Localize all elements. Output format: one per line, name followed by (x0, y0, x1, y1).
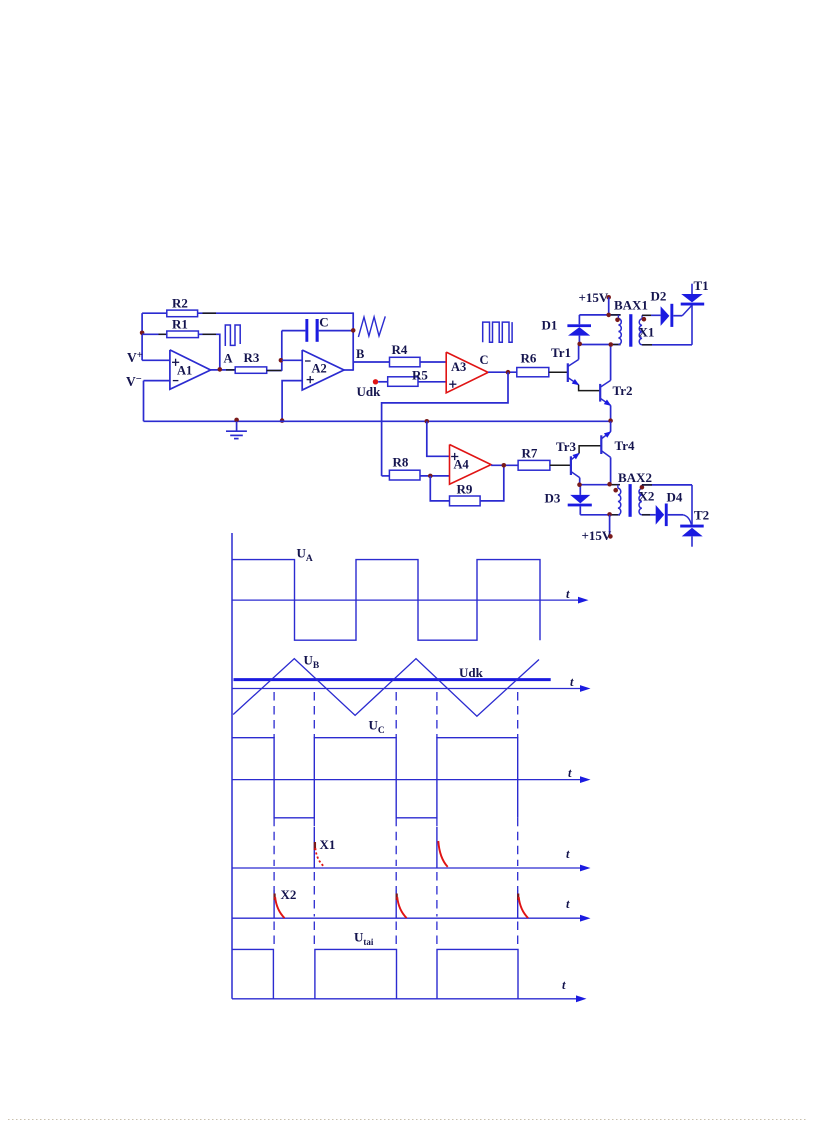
svg-text:R4: R4 (392, 342, 408, 357)
wire BAX1 primary top (579, 314, 620, 316)
wire BAX2 top (580, 484, 620, 486)
wire R3 right black overlay (267, 370, 282, 372)
axis t X1 (232, 865, 591, 872)
wire A4 output (491, 464, 518, 466)
svg-text:UA: UA (297, 546, 313, 565)
label D4 (667, 490, 683, 505)
dashed timing line 2 (313, 692, 315, 949)
transistor Tr4 (601, 431, 611, 457)
svg-text:D2: D2 (651, 289, 667, 304)
svg-text:+15V: +15V (582, 528, 612, 543)
wire R8 left (382, 475, 390, 477)
op-amp A4 (450, 445, 492, 485)
label V+ (127, 350, 143, 365)
waveform UA (232, 560, 540, 641)
label Tr3 (556, 439, 576, 454)
resistor R9 (450, 496, 481, 506)
resistor R7 (518, 460, 550, 470)
wire Tr2 emitter (610, 405, 612, 421)
op-amp A3 (446, 352, 488, 393)
square wave glyph at A (225, 325, 240, 346)
wire +15V drop (608, 297, 610, 315)
svg-text:t: t (562, 978, 566, 992)
svg-text:UC: UC (369, 718, 385, 737)
junction +15V bottom (608, 534, 613, 539)
dashed timing line 5 (517, 692, 519, 949)
svg-text:A2: A2 (312, 362, 327, 376)
label R8 (393, 455, 409, 470)
wire R2 right to node B top (198, 312, 354, 314)
junction BAX1 primary top (615, 318, 620, 323)
svg-text:A: A (224, 352, 233, 366)
wire V+ vertical (141, 313, 143, 360)
svg-text:B: B (356, 347, 364, 361)
svg-text:A1: A1 (177, 364, 192, 378)
svg-text:t: t (568, 766, 572, 780)
op-amp A1 (170, 350, 211, 389)
resistor R5 (388, 377, 418, 387)
svg-text:T1: T1 (694, 278, 709, 293)
resistor R4 (390, 357, 421, 367)
label UC (369, 718, 385, 737)
label +15V bottom (582, 528, 612, 543)
svg-text:UB: UB (304, 653, 320, 672)
svg-text:+15V: +15V (579, 290, 609, 305)
wire A2 +input (282, 381, 302, 422)
svg-text:t: t (566, 847, 570, 861)
wire R3 left black overlay (226, 369, 235, 371)
waveform UC (232, 738, 518, 818)
junction D1 bottom (577, 342, 582, 347)
junction A2 + ground (280, 418, 285, 423)
label A3 (451, 360, 466, 374)
label R6 (521, 351, 537, 366)
label Udk (357, 384, 382, 399)
node B label (356, 347, 364, 361)
label R9 (457, 482, 473, 497)
wire D2 to T1 gate (673, 306, 691, 316)
svg-text:X1: X1 (320, 837, 336, 852)
junction node A (218, 367, 223, 372)
label Tr1 (551, 345, 571, 360)
wire A2 output (344, 369, 353, 371)
wire A3 feedback (382, 372, 508, 476)
dashed timing line 4 (436, 692, 438, 949)
transistor Tr2 (600, 380, 611, 406)
transistor Tr3 (571, 453, 580, 478)
node Udk dot (373, 379, 378, 384)
resistor R2 (167, 310, 198, 317)
transformer BAX1 primary (618, 315, 621, 345)
pulse X2 first (275, 894, 285, 919)
transformer BAX2 secondary X2 (639, 485, 642, 515)
axis t Utai (232, 995, 587, 1002)
dashed timing line 3 (395, 692, 397, 949)
diode D1 (567, 324, 591, 335)
waveform vertical axis (231, 533, 233, 999)
label Udk wave (459, 665, 484, 680)
diode D4 (656, 504, 668, 527)
wire Tr1 collector (578, 345, 580, 360)
svg-text:T2: T2 (694, 508, 709, 523)
svg-text:R7: R7 (522, 446, 538, 461)
label t UB (570, 675, 574, 689)
triangle wave glyph at B (358, 316, 385, 337)
wire X1 bottom to T1 cathode (642, 344, 692, 346)
wire Tr2 collector (610, 345, 612, 380)
junction BAX1 top wire (606, 313, 611, 318)
junction X1 top (642, 317, 647, 322)
wire A2 -input (282, 359, 302, 361)
transformer BAX2 core (629, 484, 632, 517)
wire T2 anode vertical (691, 485, 693, 525)
label C (319, 315, 328, 330)
label Tr4 (615, 438, 635, 453)
wire R9 left leg (430, 476, 449, 501)
svg-text:BAX2: BAX2 (618, 470, 652, 485)
wire cap right to node B (319, 330, 354, 332)
label UB (304, 653, 320, 672)
svg-text:BAX1: BAX1 (614, 298, 648, 313)
diode D3 (568, 495, 592, 507)
axis t UC (232, 776, 591, 783)
junction BAX1 bottom wire (609, 342, 614, 347)
waveform Utai (232, 949, 518, 998)
svg-text:X2: X2 (281, 887, 297, 902)
wire D3 top (579, 485, 581, 495)
junction A2 minus (279, 358, 284, 363)
label R2 (172, 296, 188, 311)
wire D4 to T2 gate (668, 515, 692, 525)
transformer BAX1 secondary X1 (639, 315, 642, 345)
junction A3 output (506, 370, 511, 375)
wire Tr4 emitter up (610, 421, 612, 431)
resistor R8 (389, 470, 420, 480)
label X1 (639, 325, 655, 340)
junction A4 + ground (425, 419, 430, 424)
wire Udk to R5 (378, 381, 388, 383)
wire V- left (143, 381, 145, 422)
junction ground stub (234, 418, 239, 423)
label +15V top (579, 290, 609, 305)
wire R1 right to node A (198, 334, 219, 369)
label t X1 (566, 847, 570, 861)
svg-text:Utai: Utai (354, 930, 374, 948)
label R4 (392, 342, 408, 357)
wire X1 top to D2 (642, 314, 661, 316)
svg-text:R3: R3 (244, 350, 260, 365)
label UA (297, 546, 313, 565)
wire R7 right to Tr3 base (550, 464, 571, 466)
wire cap left (282, 330, 306, 332)
label D1 (542, 318, 558, 333)
svg-text:R5: R5 (412, 368, 428, 383)
wire D3 bottom lead (579, 506, 581, 514)
wire A1 +input (142, 359, 170, 361)
pulse X1 first (315, 842, 324, 867)
diode D2 (661, 304, 674, 327)
label Tr2 (613, 383, 633, 398)
axis t UB (232, 685, 591, 692)
wire BAX2 bottom (580, 514, 620, 516)
label T1 (694, 278, 709, 293)
label V- (126, 374, 142, 389)
square wave glyph at C (483, 322, 512, 342)
wire R4 right to A3 minus (420, 361, 446, 363)
wire cap-left vertical to A2 minus (281, 331, 283, 371)
wire D1 bottom lead (578, 336, 580, 345)
junction X2 top (640, 485, 645, 490)
label BAX1 (614, 298, 648, 313)
svg-text:t: t (566, 587, 570, 601)
waveform Udk level (234, 678, 551, 681)
label X1 pulse (320, 837, 336, 852)
wire Tr4 collector (610, 457, 612, 484)
svg-text:Tr3: Tr3 (556, 439, 576, 454)
junction node B cap (351, 328, 356, 333)
svg-text:t: t (570, 675, 574, 689)
transformer BAX1 core (629, 314, 632, 347)
bottom dotted page rule (8, 1119, 808, 1121)
thyristor T2 (680, 525, 704, 547)
svg-text:A3: A3 (451, 360, 466, 374)
wire R8 right to A4 minus (420, 475, 450, 477)
label t UA (566, 587, 570, 601)
node A label (224, 352, 233, 366)
svg-text:R8: R8 (393, 455, 409, 470)
waveform UB triangle (233, 659, 539, 717)
svg-text:R6: R6 (521, 351, 537, 366)
op-amp A2 (302, 350, 344, 390)
label R1 (172, 317, 188, 332)
label A4 (454, 458, 470, 472)
label X2 pulse (281, 887, 297, 902)
svg-text:Tr1: Tr1 (551, 345, 571, 360)
svg-text:D3: D3 (545, 491, 561, 506)
label t X2 (566, 897, 570, 911)
resistor R1 (167, 331, 199, 338)
wire R2 left (142, 312, 167, 314)
svg-text:Tr4: Tr4 (615, 438, 635, 453)
wire Tr3 emitter to Tr4 base (579, 446, 601, 454)
transistor Tr1 (568, 360, 580, 386)
capacitor C (305, 319, 318, 342)
junction A4 minus (428, 474, 433, 479)
svg-text:C: C (319, 315, 328, 330)
svg-text:R9: R9 (457, 482, 473, 497)
resistor R6 (517, 368, 549, 377)
wire common bottom (144, 420, 611, 422)
svg-text:Tr2: Tr2 (613, 383, 633, 398)
wire Tr3 collector (579, 478, 581, 485)
node B vertical (352, 312, 354, 370)
junction BAX2 top right (607, 482, 612, 487)
axis t X2 (232, 915, 591, 922)
label D3 (545, 491, 561, 506)
label BAX2 (618, 470, 652, 485)
wire A1 -input (144, 380, 170, 382)
wire D1 top (578, 315, 580, 324)
svg-text:V−: V− (126, 374, 142, 389)
svg-text:A4: A4 (454, 458, 470, 472)
junction V+/R1 (140, 331, 145, 336)
svg-text:R2: R2 (172, 296, 188, 311)
junction Tr2 emitter common (608, 418, 613, 423)
svg-text:X1: X1 (639, 325, 655, 340)
label R5 (412, 368, 428, 383)
label D2 (651, 289, 667, 304)
wire BAX1 primary bottom (579, 344, 621, 346)
svg-text:R1: R1 (172, 317, 188, 332)
label t Utai (562, 978, 566, 992)
wire R9 right leg (480, 465, 504, 501)
junction BAX2 top left (577, 482, 582, 487)
wire A3 output (488, 371, 517, 373)
junction +15V top (606, 295, 611, 300)
wire +15V bottom drop (609, 515, 611, 537)
wire R1 right black overlay (203, 333, 217, 335)
dashed timing line 1 (273, 692, 275, 949)
label A1 (177, 364, 192, 378)
wire R3 right (267, 370, 282, 372)
svg-text:C: C (480, 353, 489, 367)
wire R2 right black overlay (203, 312, 217, 314)
wire R4 left (353, 361, 389, 363)
label Utai (354, 930, 374, 948)
svg-text:t: t (566, 897, 570, 911)
junction BAX2 bottom (607, 512, 612, 517)
wire X2 top to T2 anode (642, 484, 692, 486)
wire A4 +input (427, 421, 450, 456)
wire X2 bottom to D4 (642, 514, 656, 516)
pulse X1 second (438, 841, 447, 867)
wire A1 output (211, 369, 236, 371)
pulse X2 third (518, 894, 528, 919)
wire R5 right to A3 plus (418, 381, 446, 383)
svg-text:X2: X2 (639, 489, 655, 504)
resistor R3 (235, 367, 267, 373)
wire R1 left black overlay (159, 333, 167, 335)
svg-text:V+: V+ (127, 350, 143, 365)
axis t UA (232, 597, 589, 604)
svg-text:D4: D4 (667, 490, 683, 505)
svg-text:Udk: Udk (357, 384, 382, 399)
ground (226, 421, 247, 438)
pulse X2 second (397, 894, 407, 919)
label T2 (694, 508, 709, 523)
label R3 (244, 350, 260, 365)
svg-text:Udk: Udk (459, 665, 484, 680)
label t UC (568, 766, 572, 780)
svg-text:D1: D1 (542, 318, 558, 333)
wire R1 left (142, 333, 167, 335)
wire Tr1 emitter to Tr2 base (579, 385, 601, 391)
node C label (480, 353, 489, 367)
transformer BAX2 primary (618, 485, 621, 515)
label R7 (522, 446, 538, 461)
wire R6 right to Tr1 base (549, 371, 568, 373)
label X2 (639, 489, 655, 504)
thyristor T1 (681, 284, 705, 345)
junction A4 output (502, 463, 507, 468)
junction BAX2 primary top (613, 488, 618, 493)
label A2 (312, 362, 327, 376)
